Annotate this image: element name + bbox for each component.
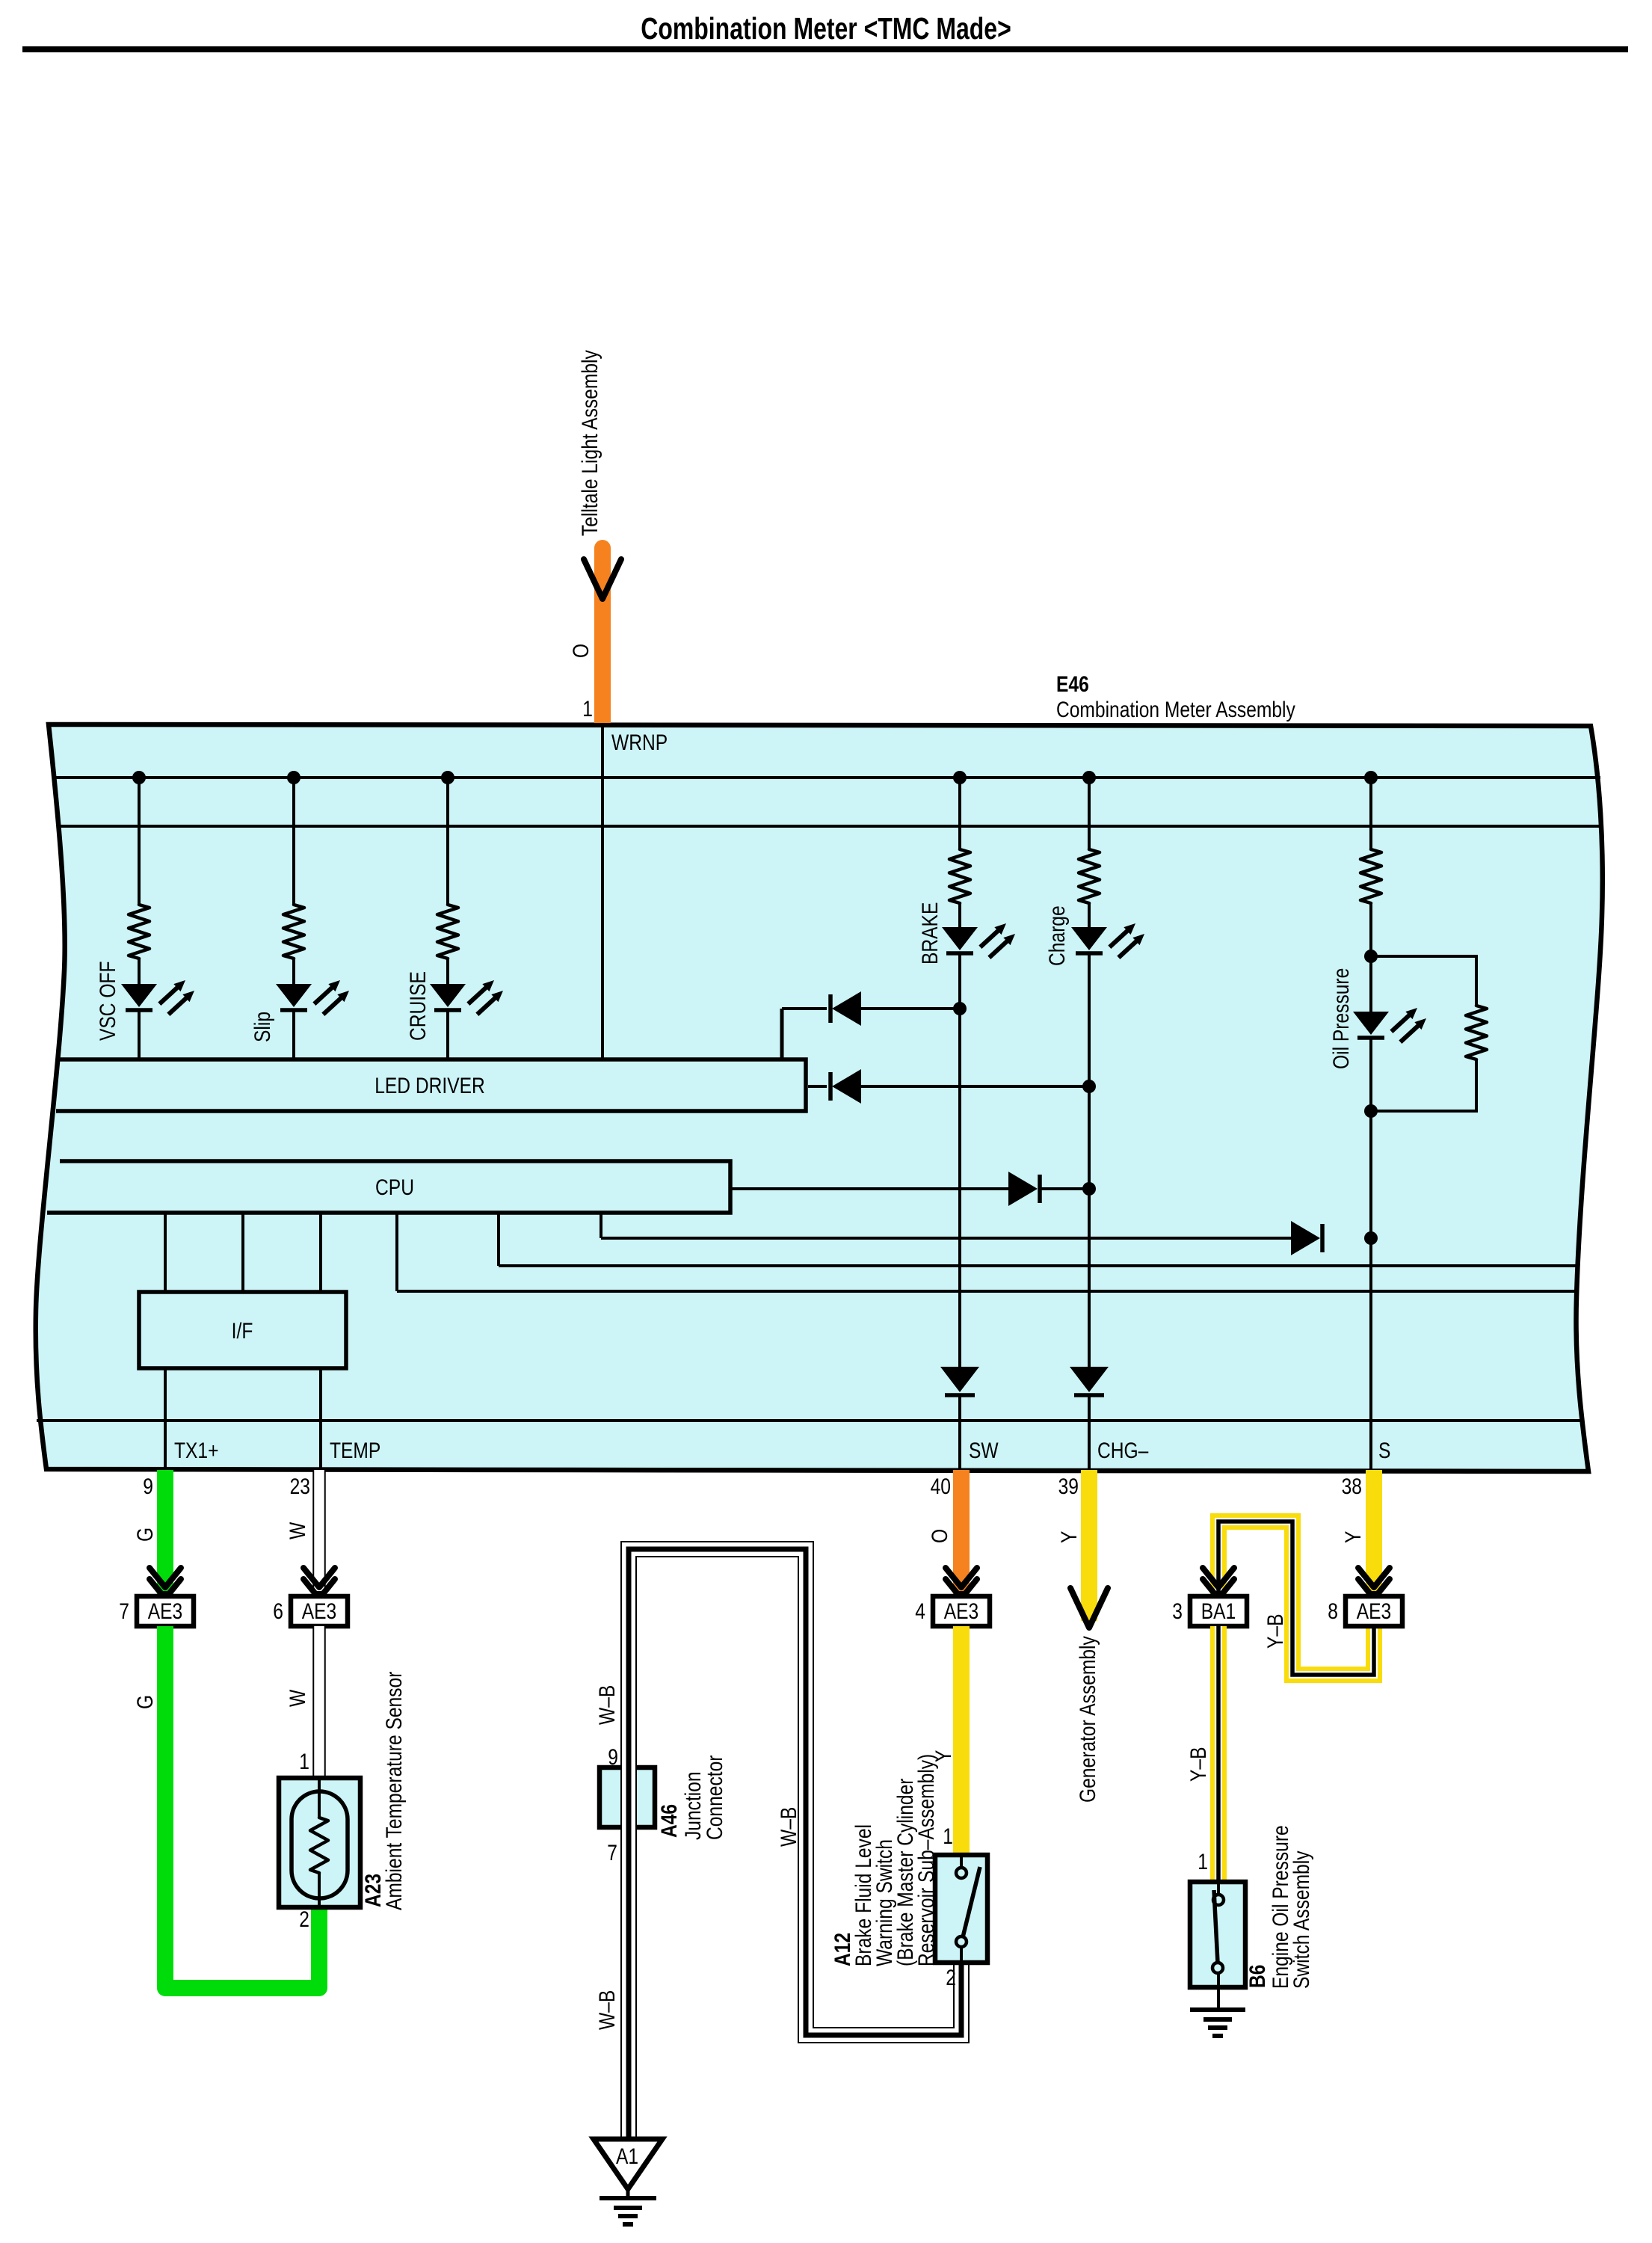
svg-text:23: 23 bbox=[290, 1474, 310, 1499]
svg-text:Y–B: Y–B bbox=[1263, 1614, 1288, 1649]
svg-text:3: 3 bbox=[1172, 1599, 1183, 1624]
svg-text:BRAKE: BRAKE bbox=[917, 902, 943, 964]
svg-text:2: 2 bbox=[946, 1965, 956, 1990]
svg-text:W: W bbox=[285, 1690, 310, 1707]
svg-text:1: 1 bbox=[1198, 1849, 1208, 1874]
svg-text:8: 8 bbox=[1328, 1599, 1338, 1624]
svg-text:Oil Pressure: Oil Pressure bbox=[1328, 968, 1354, 1069]
svg-text:39: 39 bbox=[1058, 1474, 1079, 1499]
svg-text:I/F: I/F bbox=[232, 1318, 253, 1344]
svg-text:TEMP: TEMP bbox=[330, 1438, 380, 1463]
svg-text:E46: E46 bbox=[1056, 671, 1089, 697]
svg-text:Y: Y bbox=[1056, 1531, 1082, 1543]
svg-text:38: 38 bbox=[1342, 1474, 1362, 1499]
svg-text:Y: Y bbox=[1340, 1531, 1366, 1543]
svg-text:Connector: Connector bbox=[702, 1756, 727, 1840]
svg-text:VSC OFF: VSC OFF bbox=[95, 961, 120, 1041]
svg-text:S: S bbox=[1378, 1438, 1390, 1463]
svg-text:CHG–: CHG– bbox=[1097, 1438, 1149, 1463]
svg-text:Combination Meter <TMC Made>: Combination Meter <TMC Made> bbox=[641, 11, 1011, 46]
svg-text:TX1+: TX1+ bbox=[174, 1438, 218, 1463]
svg-text:Combination Meter Assembly: Combination Meter Assembly bbox=[1056, 697, 1295, 722]
svg-text:AE3: AE3 bbox=[1357, 1599, 1391, 1624]
svg-text:W–B: W–B bbox=[594, 1685, 620, 1725]
svg-text:W: W bbox=[285, 1522, 310, 1539]
svg-text:1: 1 bbox=[582, 696, 593, 721]
svg-text:AE3: AE3 bbox=[302, 1599, 336, 1624]
svg-text:6: 6 bbox=[273, 1599, 283, 1624]
svg-text:9: 9 bbox=[143, 1474, 153, 1499]
svg-text:Generator Assembly: Generator Assembly bbox=[1075, 1636, 1100, 1803]
svg-text:Charge: Charge bbox=[1044, 905, 1070, 966]
svg-text:B6: B6 bbox=[1245, 1965, 1270, 1988]
svg-text:Telltale Light Assembly: Telltale Light Assembly bbox=[577, 350, 602, 536]
svg-text:2: 2 bbox=[299, 1907, 309, 1932]
svg-text:G: G bbox=[132, 1527, 158, 1542]
svg-text:AE3: AE3 bbox=[148, 1599, 182, 1624]
svg-text:CPU: CPU bbox=[375, 1175, 414, 1200]
svg-text:1: 1 bbox=[943, 1824, 953, 1849]
svg-text:A1: A1 bbox=[616, 2144, 638, 2169]
svg-text:LED DRIVER: LED DRIVER bbox=[375, 1073, 485, 1098]
svg-text:40: 40 bbox=[931, 1474, 951, 1499]
svg-text:4: 4 bbox=[915, 1599, 925, 1624]
svg-text:9: 9 bbox=[608, 1744, 618, 1770]
svg-text:SW: SW bbox=[969, 1438, 999, 1463]
svg-text:Y–B: Y–B bbox=[1186, 1747, 1211, 1782]
svg-text:BA1: BA1 bbox=[1201, 1599, 1236, 1624]
svg-text:Ambient Temperature Sensor: Ambient Temperature Sensor bbox=[381, 1672, 407, 1910]
svg-text:WRNP: WRNP bbox=[611, 730, 668, 755]
svg-text:Slip: Slip bbox=[250, 1012, 275, 1042]
svg-text:1: 1 bbox=[299, 1749, 309, 1774]
svg-text:Switch Assembly: Switch Assembly bbox=[1289, 1850, 1314, 1989]
svg-text:A46: A46 bbox=[656, 1804, 682, 1838]
svg-text:7: 7 bbox=[607, 1840, 617, 1865]
svg-text:W–B: W–B bbox=[594, 1990, 620, 2030]
svg-text:O: O bbox=[927, 1529, 952, 1543]
svg-text:G: G bbox=[132, 1695, 158, 1709]
svg-text:O: O bbox=[568, 644, 594, 658]
svg-text:AE3: AE3 bbox=[944, 1599, 978, 1624]
svg-text:7: 7 bbox=[119, 1599, 129, 1624]
svg-text:W–B: W–B bbox=[776, 1807, 801, 1847]
svg-text:CRUISE: CRUISE bbox=[405, 971, 431, 1041]
svg-text:Reservoir Sub–Assembly): Reservoir Sub–Assembly) bbox=[913, 1754, 939, 1966]
